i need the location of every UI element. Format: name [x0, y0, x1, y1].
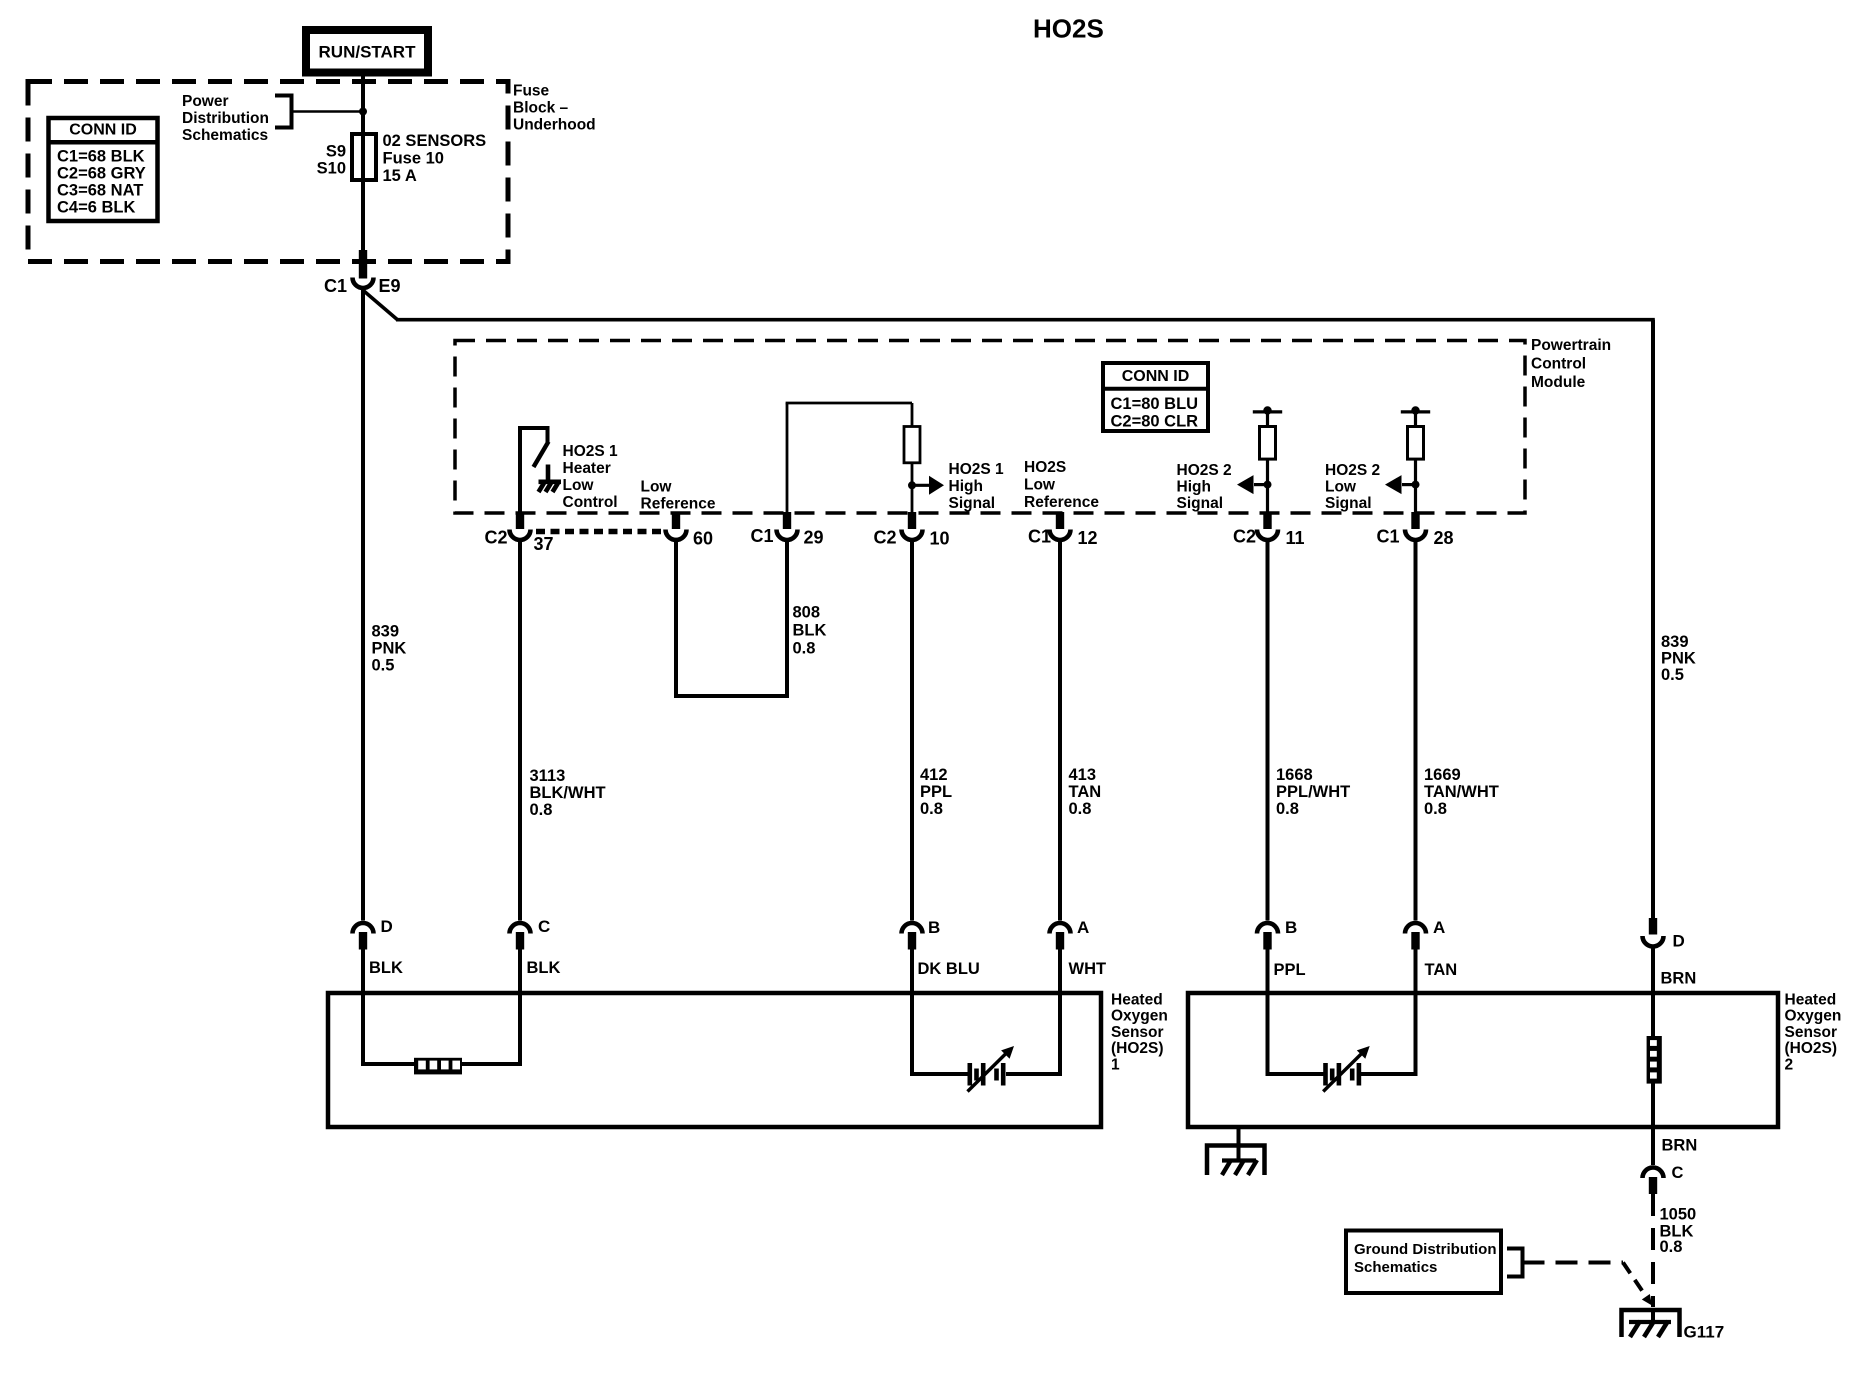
svg-text:TAN: TAN — [1425, 961, 1458, 979]
svg-text:BLK/WHT: BLK/WHT — [530, 784, 606, 802]
svg-text:WHT: WHT — [1069, 960, 1107, 978]
svg-text:Heated: Heated — [1111, 992, 1163, 1009]
svg-text:G117: G117 — [1684, 1323, 1725, 1342]
svg-text:C2: C2 — [873, 528, 896, 548]
svg-text:Fuse: Fuse — [513, 83, 550, 100]
svg-text:D: D — [1673, 932, 1685, 951]
svg-text:10: 10 — [930, 529, 950, 549]
svg-text:B: B — [928, 918, 940, 937]
svg-text:Power: Power — [182, 93, 229, 110]
svg-text:(HO2S): (HO2S) — [1785, 1040, 1838, 1057]
svg-text:S9: S9 — [326, 143, 346, 161]
svg-text:12: 12 — [1078, 528, 1098, 548]
svg-text:C1=80 BLU: C1=80 BLU — [1111, 395, 1199, 413]
svg-text:C1: C1 — [324, 276, 347, 296]
svg-text:Block –: Block – — [513, 100, 569, 117]
svg-text:HO2S 2: HO2S 2 — [1177, 462, 1232, 479]
svg-text:HO2S 1: HO2S 1 — [563, 443, 619, 460]
svg-text:Control: Control — [1531, 356, 1586, 373]
svg-text:0.5: 0.5 — [372, 657, 395, 675]
svg-text:0.8: 0.8 — [1660, 1238, 1683, 1256]
svg-text:Control: Control — [563, 494, 618, 511]
svg-text:Schematics: Schematics — [1354, 1259, 1437, 1276]
svg-text:PPL: PPL — [920, 783, 952, 801]
svg-text:BRN: BRN — [1661, 970, 1697, 988]
svg-text:C: C — [1672, 1164, 1684, 1182]
svg-text:DK BLU: DK BLU — [918, 960, 980, 978]
svg-text:60: 60 — [693, 529, 713, 549]
svg-text:PNK: PNK — [1661, 650, 1696, 668]
svg-text:BLK: BLK — [527, 959, 561, 977]
svg-text:PNK: PNK — [372, 640, 407, 658]
svg-text:3113: 3113 — [530, 767, 566, 785]
svg-text:Module: Module — [1531, 374, 1586, 391]
svg-text:Distribution: Distribution — [182, 110, 269, 127]
svg-text:C4=6 BLK: C4=6 BLK — [57, 199, 135, 217]
svg-text:(HO2S): (HO2S) — [1111, 1040, 1164, 1057]
svg-text:High: High — [1177, 479, 1211, 496]
svg-text:High: High — [949, 478, 983, 495]
svg-text:29: 29 — [804, 528, 824, 548]
svg-text:1669: 1669 — [1424, 766, 1461, 784]
svg-text:Heated: Heated — [1785, 992, 1837, 1009]
svg-text:0.8: 0.8 — [1069, 800, 1092, 818]
svg-text:02 SENSORS: 02 SENSORS — [383, 132, 487, 150]
svg-text:BLK: BLK — [793, 622, 827, 640]
svg-text:0.5: 0.5 — [1661, 666, 1684, 684]
svg-text:839: 839 — [1661, 633, 1689, 651]
svg-text:Low: Low — [641, 479, 673, 496]
svg-text:15 A: 15 A — [383, 167, 417, 185]
svg-text:S10: S10 — [317, 160, 346, 178]
svg-text:Sensor: Sensor — [1785, 1024, 1838, 1041]
svg-text:839: 839 — [372, 623, 400, 641]
svg-text:Powertrain: Powertrain — [1531, 337, 1611, 354]
svg-text:C2=68 GRY: C2=68 GRY — [57, 165, 146, 183]
svg-text:Heater: Heater — [563, 460, 611, 477]
svg-text:C1=68 BLK: C1=68 BLK — [57, 148, 145, 166]
svg-text:Reference: Reference — [641, 496, 716, 513]
svg-text:HO2S: HO2S — [1033, 13, 1104, 43]
svg-text:B: B — [1285, 918, 1297, 937]
svg-text:1: 1 — [1111, 1056, 1120, 1073]
svg-text:1668: 1668 — [1276, 766, 1313, 784]
svg-text:Low: Low — [563, 477, 595, 494]
svg-text:11: 11 — [1286, 528, 1305, 548]
svg-text:412: 412 — [920, 766, 948, 784]
svg-text:HO2S 2: HO2S 2 — [1325, 462, 1380, 479]
svg-text:Signal: Signal — [949, 495, 996, 512]
svg-text:RUN/START: RUN/START — [319, 43, 417, 62]
svg-text:C1: C1 — [750, 526, 773, 546]
svg-text:37: 37 — [534, 534, 554, 554]
svg-text:1050: 1050 — [1660, 1206, 1697, 1224]
svg-text:Signal: Signal — [1325, 495, 1372, 512]
svg-text:Schematics: Schematics — [182, 127, 268, 144]
svg-text:2: 2 — [1785, 1056, 1794, 1073]
svg-text:D: D — [381, 917, 393, 936]
svg-text:Sensor: Sensor — [1111, 1024, 1164, 1041]
svg-text:0.8: 0.8 — [1424, 800, 1447, 818]
svg-text:C1: C1 — [1028, 527, 1051, 547]
svg-text:Oxygen: Oxygen — [1785, 1008, 1842, 1025]
svg-text:C: C — [538, 917, 550, 936]
svg-text:Low: Low — [1024, 477, 1056, 494]
svg-text:CONN ID: CONN ID — [69, 122, 137, 139]
svg-text:HO2S 1: HO2S 1 — [949, 461, 1005, 478]
svg-text:28: 28 — [1434, 528, 1454, 548]
svg-text:0.8: 0.8 — [1276, 800, 1299, 818]
svg-text:Ground Distribution: Ground Distribution — [1354, 1241, 1496, 1258]
svg-text:HO2S: HO2S — [1024, 459, 1066, 476]
svg-text:C2=80 CLR: C2=80 CLR — [1111, 413, 1199, 431]
svg-text:Low: Low — [1325, 479, 1357, 496]
svg-text:0.8: 0.8 — [920, 800, 943, 818]
svg-text:CONN ID: CONN ID — [1122, 368, 1190, 385]
svg-text:808: 808 — [793, 604, 821, 622]
svg-text:Underhood: Underhood — [513, 117, 596, 134]
svg-text:BLK: BLK — [369, 959, 403, 977]
svg-text:C2: C2 — [484, 528, 507, 548]
svg-text:A: A — [1077, 918, 1089, 937]
svg-text:C3=68 NAT: C3=68 NAT — [57, 182, 143, 200]
svg-text:0.8: 0.8 — [530, 801, 553, 819]
svg-text:Fuse 10: Fuse 10 — [383, 150, 444, 168]
svg-text:PPL/WHT: PPL/WHT — [1276, 783, 1350, 801]
svg-text:413: 413 — [1069, 766, 1097, 784]
svg-text:Reference: Reference — [1024, 494, 1099, 511]
svg-text:C2: C2 — [1233, 527, 1256, 547]
svg-text:C1: C1 — [1376, 527, 1399, 547]
svg-text:TAN: TAN — [1069, 783, 1102, 801]
svg-text:TAN/WHT: TAN/WHT — [1424, 783, 1499, 801]
svg-text:0.8: 0.8 — [793, 640, 816, 658]
svg-text:BRN: BRN — [1662, 1137, 1698, 1155]
svg-text:Oxygen: Oxygen — [1111, 1008, 1168, 1025]
svg-text:A: A — [1433, 918, 1445, 937]
svg-text:E9: E9 — [379, 276, 401, 296]
svg-text:Signal: Signal — [1177, 495, 1224, 512]
svg-text:PPL: PPL — [1274, 961, 1306, 979]
